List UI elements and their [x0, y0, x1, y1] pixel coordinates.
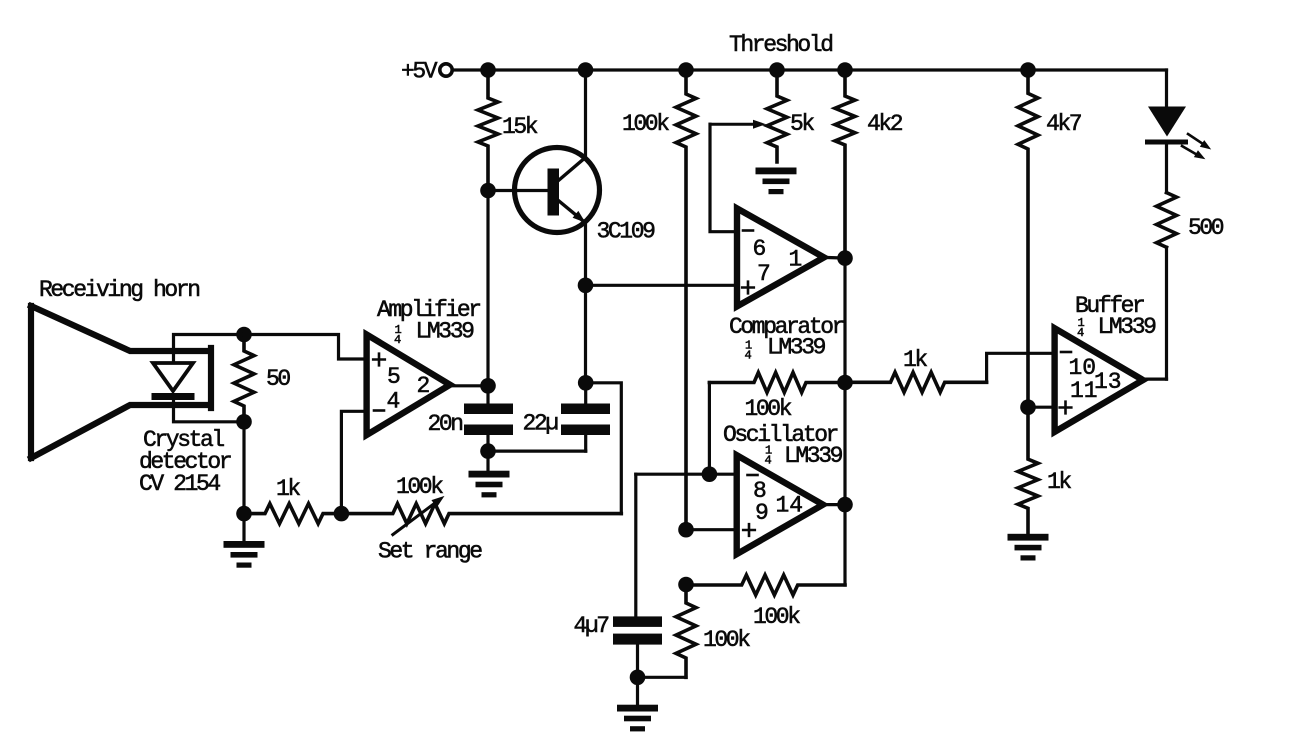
op-amp U1C oscillator	[737, 455, 823, 554]
wire LED to 500	[1165, 145, 1168, 193]
svg-text:4: 4	[765, 454, 772, 468]
wire amp output	[450, 384, 488, 387]
wire collector	[584, 70, 587, 157]
node emitter-22u	[578, 375, 594, 391]
LED indicator	[1145, 107, 1211, 160]
wire base	[488, 189, 548, 192]
svg-text:Receiving horn: Receiving horn	[39, 277, 199, 303]
wire 20n gnd stub	[486, 451, 489, 471]
node comp-out	[837, 250, 853, 266]
svg-text:7: 7	[757, 261, 771, 287]
svg-text:22µ: 22µ	[523, 411, 559, 437]
op-amp U1A amplifier	[367, 335, 450, 436]
node rail-Q1	[578, 62, 594, 78]
wire 15k to amp out	[486, 191, 489, 386]
node amp-inv	[334, 506, 350, 522]
wire osc output	[823, 503, 845, 506]
label amplifier	[377, 297, 480, 347]
ground 20n	[469, 471, 510, 498]
transistor Q1 3C109	[515, 148, 656, 245]
wire osc +input	[686, 528, 737, 531]
svg-text:1k: 1k	[276, 476, 300, 502]
wire amp -input	[341, 411, 366, 513]
resistor 4k7	[1018, 70, 1081, 407]
capacitor 22u	[523, 383, 611, 451]
node detector-top	[236, 327, 252, 343]
svg-text:15k: 15k	[502, 114, 538, 140]
node amp-out	[480, 378, 496, 394]
pin 4 amp	[387, 389, 401, 415]
wire gnd-left stub	[242, 514, 245, 541]
svg-text:13: 13	[1094, 369, 1122, 395]
wire 4u7 to osc -input	[634, 474, 637, 616]
svg-text:LM339: LM339	[767, 335, 826, 361]
label crystal detector	[139, 427, 231, 497]
svg-text:100k: 100k	[745, 396, 792, 422]
wire detector top	[174, 335, 245, 364]
node 20n-gnd	[480, 443, 496, 459]
svg-text:500: 500	[1188, 215, 1224, 241]
svg-text:2: 2	[417, 373, 431, 399]
svg-text:100k: 100k	[396, 474, 443, 500]
wire open-collector bus	[843, 258, 846, 585]
pin + amp	[373, 354, 385, 366]
svg-text:100k: 100k	[622, 111, 669, 137]
wire 5k wiper to comp -input	[710, 124, 736, 232]
resistor 1k left	[244, 476, 341, 524]
op-amp U1D buffer	[1055, 328, 1143, 432]
wire 500 to buffer out	[1165, 247, 1168, 379]
label Threshold	[729, 32, 832, 58]
wire detector bottom	[174, 400, 245, 422]
node emitter-comp	[578, 278, 594, 294]
wire gnd stub osc	[636, 677, 639, 704]
resistor 1k buffer gnd	[1018, 407, 1071, 534]
pin - comp	[743, 229, 753, 232]
node rail-100k	[678, 62, 694, 78]
svg-text:4: 4	[394, 333, 401, 347]
resistor 100k comp feedback	[709, 373, 845, 423]
node 4u7-gnd	[630, 670, 646, 686]
diode D1 crystal detector	[152, 363, 195, 400]
resistor 1k comp-buffer	[845, 347, 987, 392]
svg-text:14: 14	[776, 493, 804, 519]
node osc-inv	[702, 466, 718, 482]
label buffer	[1075, 293, 1156, 340]
wire buf +input	[1028, 406, 1055, 409]
ground oscillator	[617, 705, 658, 732]
pin + osc	[743, 524, 755, 536]
op-amp U1B comparator	[737, 208, 824, 306]
resistor 100k threshold	[622, 70, 696, 530]
wire buffer output	[1143, 378, 1167, 381]
wire osc -input	[636, 473, 737, 476]
svg-text:Set range: Set range	[378, 539, 482, 565]
+5V terminal	[401, 59, 452, 85]
wire +5V rail	[453, 68, 1167, 71]
svg-text:5k: 5k	[790, 111, 814, 137]
resistor 100k to gnd	[676, 585, 750, 678]
svg-text:4: 4	[387, 389, 401, 415]
svg-text:LM339: LM339	[1098, 314, 1157, 340]
resistor 100k osc feedback	[686, 575, 845, 630]
label comparator	[729, 314, 844, 363]
svg-text:4: 4	[1077, 326, 1084, 340]
node Q1 base	[480, 183, 496, 199]
label oscillator	[723, 422, 843, 469]
node rail-4k2	[837, 62, 853, 78]
svg-text:+5V: +5V	[401, 59, 438, 85]
wire fb to osc -input	[708, 383, 711, 475]
pin 2 amp	[417, 373, 431, 399]
ground buffer	[1008, 534, 1049, 561]
svg-text:4µ7: 4µ7	[574, 613, 609, 639]
wire comp output	[824, 256, 845, 260]
node rail-5k	[769, 62, 785, 78]
wire comp +input	[586, 284, 736, 287]
pin - buf	[1061, 351, 1071, 354]
resistor 4k2	[835, 70, 903, 258]
capacitor 4u7	[574, 613, 663, 677]
svg-text:1k: 1k	[1047, 469, 1071, 495]
resistor 500	[1157, 193, 1224, 248]
node bus-1k	[837, 375, 853, 391]
ground left	[224, 541, 265, 568]
resistor 15k	[478, 70, 538, 191]
svg-text:3C109: 3C109	[597, 219, 656, 245]
wire 22u to 20n gnd node	[488, 450, 586, 453]
svg-text:1k: 1k	[903, 347, 927, 373]
resistor 50	[234, 335, 290, 422]
pin 1 comp	[789, 247, 803, 273]
svg-text:100k: 100k	[753, 604, 800, 630]
svg-text:1: 1	[789, 247, 803, 273]
svg-text:LM339: LM339	[416, 319, 475, 345]
svg-text:4: 4	[745, 349, 752, 363]
svg-text:4k7: 4k7	[1046, 111, 1081, 137]
wire set-range to 22u node	[586, 383, 622, 514]
pin 13 buf	[1094, 369, 1122, 395]
pin + buf	[1060, 402, 1072, 414]
node osc-noninv	[678, 522, 694, 538]
wire amp +input	[244, 335, 367, 360]
svg-text:CV 2154: CV 2154	[139, 471, 220, 497]
node detector-bottom	[236, 414, 252, 430]
pin - osc	[748, 474, 758, 477]
wire rail to LED	[1165, 70, 1168, 107]
pin 11 buf	[1070, 378, 1098, 404]
pin - amp	[374, 409, 384, 412]
svg-text:50: 50	[266, 366, 290, 392]
node osc fb node	[678, 577, 694, 593]
wire 50-to-gnd-node	[242, 422, 245, 514]
pin 6 comp	[753, 236, 767, 262]
wire emitter	[584, 223, 587, 383]
svg-text:20n: 20n	[428, 411, 463, 437]
svg-text:4k2: 4k2	[867, 111, 903, 137]
pin 10 buf	[1069, 355, 1097, 381]
svg-text:LM339: LM339	[784, 443, 843, 469]
receiving horn	[31, 277, 211, 458]
svg-text:6: 6	[753, 236, 767, 262]
node osc-out	[837, 497, 853, 513]
potentiometer 5k threshold	[710, 70, 814, 162]
svg-text:9: 9	[755, 500, 769, 526]
node rail-15k	[480, 62, 496, 78]
svg-text:11: 11	[1070, 378, 1098, 404]
node buf-noninv	[1020, 399, 1036, 415]
wire 4u7 gnd link	[638, 676, 687, 679]
pin 7 comp	[757, 261, 771, 287]
svg-text:100k: 100k	[703, 627, 750, 653]
svg-text:Threshold: Threshold	[729, 32, 832, 58]
node gnd-left	[236, 506, 252, 522]
pin 9 osc	[755, 500, 769, 526]
pin 8 osc	[753, 478, 767, 504]
pin 14 osc	[776, 493, 804, 519]
svg-text:5: 5	[387, 364, 401, 390]
potentiometer 100k set range	[341, 474, 621, 565]
capacitor 20n	[428, 386, 514, 451]
wire 1k to buffer -input	[987, 353, 1055, 382]
node rail-4k7	[1020, 62, 1036, 78]
ground 5k	[756, 168, 797, 195]
pin 5 amp	[387, 364, 401, 390]
pin + comp	[742, 282, 754, 294]
